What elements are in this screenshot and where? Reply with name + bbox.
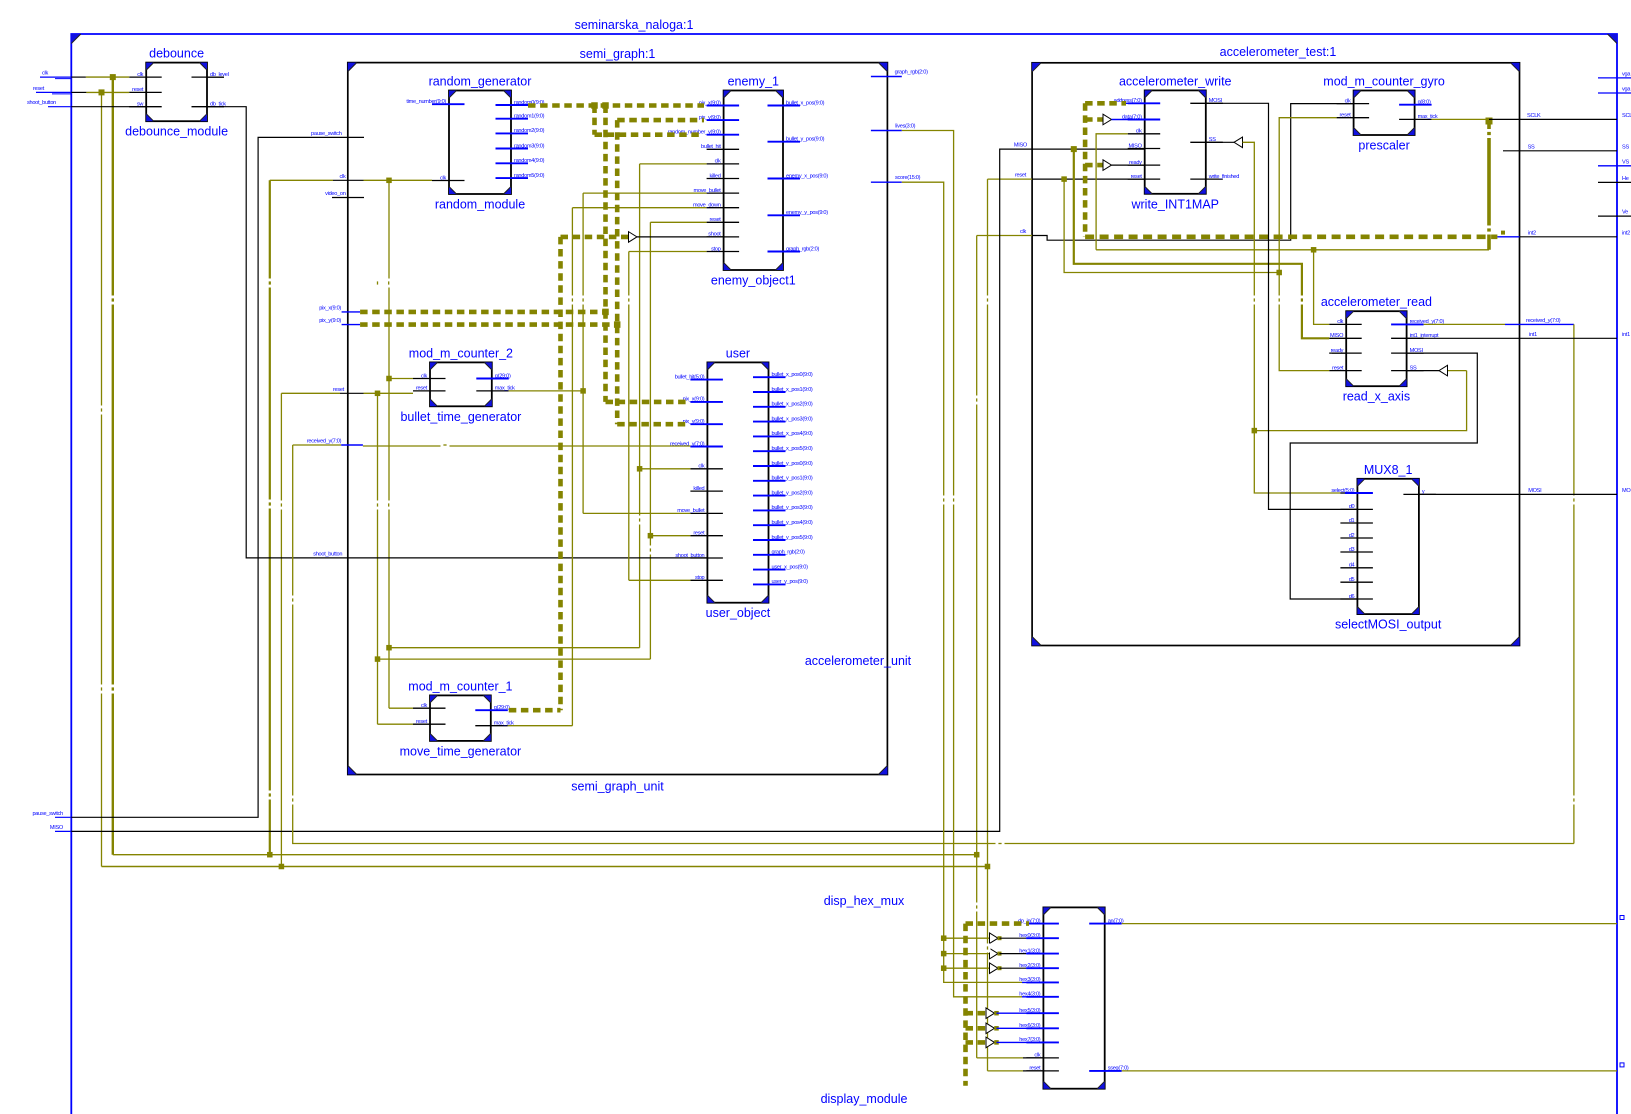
wire clk to mod_m_counter_1.clk bbox=[389, 707, 413, 709]
wire SPI clock horizontal y=249.8 bbox=[1096, 249, 1489, 251]
module mod_m_counter_1 (move_time_generator) bbox=[400, 679, 522, 758]
svg-text:received_y(7:0): received_y(7:0) bbox=[1526, 318, 1561, 324]
svg-text:reset: reset bbox=[132, 87, 144, 93]
bus dp_in dashed vertical x=965.5 bbox=[963, 924, 968, 1086]
wire move_bullet to enemy_1 bbox=[583, 192, 707, 194]
wire received_y right vertical bbox=[1573, 324, 1575, 843]
input port pause_switch bbox=[32, 811, 71, 818]
svg-text:killed: killed bbox=[693, 486, 704, 492]
svg-text:He: He bbox=[1622, 176, 1629, 182]
junction score hex0 bbox=[941, 935, 947, 941]
svg-text:bullet_x_pos0(9:0): bullet_x_pos0(9:0) bbox=[772, 372, 813, 378]
wire SCLK out bbox=[1489, 118, 1520, 120]
svg-text:clk: clk bbox=[137, 72, 143, 78]
svg-text:clk: clk bbox=[715, 159, 721, 165]
bus lives(3:0) output bbox=[871, 130, 902, 132]
wire reset to mod_m_counter_1.reset bbox=[378, 723, 414, 725]
svg-text:int2: int2 bbox=[1528, 230, 1536, 236]
wire MISO net to accelerometer_test bbox=[71, 149, 1032, 831]
module debounce (debounce_module) bbox=[125, 47, 228, 139]
junction score hex2 bbox=[941, 965, 947, 971]
module mod_m_counter_gyro (prescaler) bbox=[1323, 75, 1445, 153]
junction reset H5 bbox=[375, 656, 381, 662]
svg-text:bullet_y_pos4(9:0): bullet_y_pos4(9:0) bbox=[772, 520, 813, 526]
svg-text:clk: clk bbox=[42, 71, 48, 77]
svg-text:q(8:0): q(8:0) bbox=[1418, 100, 1431, 106]
svg-text:bullet_x_pos1(9:0): bullet_x_pos1(9:0) bbox=[772, 387, 813, 393]
svg-text:an(7:0): an(7:0) bbox=[1108, 918, 1124, 924]
svg-text:debounce: debounce bbox=[149, 47, 204, 61]
svg-text:SCLK: SCLK bbox=[1622, 113, 1631, 119]
wire clk vertical x=639.6 enemy/user bbox=[639, 164, 641, 648]
svg-text:clk: clk bbox=[698, 464, 704, 470]
wire shoot buffer to enemy_1.shoot bbox=[637, 236, 724, 238]
output stub VSYNC bbox=[1598, 165, 1631, 167]
junction clk user branch bbox=[637, 466, 643, 472]
wire reset to enemy_1.reset bbox=[650, 221, 706, 223]
svg-text:vga: vga bbox=[1622, 87, 1631, 93]
svg-text:reset: reset bbox=[416, 386, 428, 392]
input port shoot_button bbox=[27, 100, 71, 107]
wire write.SS to buffer bbox=[1206, 141, 1234, 143]
bus random_number_y to enemy_1 bbox=[595, 132, 704, 137]
svg-text:reset: reset bbox=[1340, 113, 1352, 119]
wire read.MOSI to MUX d6 bbox=[1290, 353, 1477, 599]
svg-text:pause_switch: pause_switch bbox=[32, 811, 63, 817]
wire score branch hex1 bbox=[944, 953, 990, 955]
svg-text:clk: clk bbox=[340, 174, 346, 180]
svg-text:d3: d3 bbox=[1349, 547, 1355, 553]
wire shoot_button to debounce.sw bbox=[71, 106, 146, 108]
svg-text:pix_x(9:0): pix_x(9:0) bbox=[683, 397, 705, 403]
svg-text:shoot_button: shoot_button bbox=[27, 100, 56, 106]
wire MUX y to MOSI edge bbox=[1419, 493, 1617, 495]
svg-text:clk: clk bbox=[1337, 319, 1343, 325]
svg-text:bullet_hit: bullet_hit bbox=[701, 144, 721, 150]
wire received_y from read_x_axis bbox=[1424, 323, 1505, 325]
svg-text:bullet_x_pos(9:0): bullet_x_pos(9:0) bbox=[786, 100, 825, 106]
wire SPI clock to read_x_axis.clk bbox=[1314, 250, 1330, 325]
bus branch hex5 bbox=[966, 1011, 987, 1016]
junction reset user branch bbox=[648, 533, 654, 539]
bus pix_x to user.pix_x bbox=[606, 400, 687, 405]
output stub Vcount bbox=[1598, 215, 1631, 217]
bus score(15:0) output bbox=[871, 181, 902, 183]
wire read SS stub bbox=[1407, 370, 1439, 372]
wire clk vertical x=389 to counters bbox=[388, 180, 390, 708]
wire an(7:0) to right edge bbox=[1122, 923, 1617, 925]
junction score hex1 bbox=[941, 951, 947, 957]
wire int2 stub to edge bbox=[1497, 236, 1519, 238]
svg-text:bullet_x_pos4(9:0): bullet_x_pos4(9:0) bbox=[772, 431, 813, 437]
svg-text:d5: d5 bbox=[1349, 577, 1355, 583]
wire stop to user.stop bbox=[629, 579, 691, 581]
buffer shoot (enemy_1) bbox=[629, 232, 638, 243]
junction move_bullet bbox=[580, 388, 586, 394]
svg-text:MISO: MISO bbox=[1014, 143, 1028, 149]
svg-text:user_y_pos(9:0): user_y_pos(9:0) bbox=[772, 579, 809, 585]
svg-text:bullet_y_pos(9:0): bullet_y_pos(9:0) bbox=[786, 137, 825, 143]
junction reset accel x=1279.2 bbox=[1276, 270, 1282, 276]
svg-text:clk: clk bbox=[421, 373, 427, 379]
junction reset H3 x=987.5 bbox=[985, 864, 991, 870]
module mod_m_counter_2 (bullet_time_generator) bbox=[400, 346, 521, 423]
svg-text:MISO: MISO bbox=[50, 825, 64, 831]
svg-text:display_module: display_module bbox=[821, 1092, 908, 1106]
wire clk riser to semi_graph x=269.8 bbox=[269, 180, 271, 854]
svg-text:VS: VS bbox=[1622, 159, 1629, 165]
junction clk to bullet_time_generator bbox=[386, 376, 392, 382]
svg-text:bullet_y_pos1(9:0): bullet_y_pos1(9:0) bbox=[772, 476, 813, 482]
bus pix_y to enemy_1.pix_y bbox=[617, 118, 704, 123]
junction clk H2 x=976.7 bbox=[974, 852, 980, 858]
svg-text:write_INT1MAP: write_INT1MAP bbox=[1130, 197, 1219, 211]
wire video_on stub bbox=[332, 197, 364, 199]
svg-text:MUX8_1: MUX8_1 bbox=[1364, 463, 1413, 477]
bus pix_x dashed horizontal bbox=[360, 310, 605, 315]
svg-text:clk: clk bbox=[421, 703, 427, 709]
svg-text:random5(9:0): random5(9:0) bbox=[514, 173, 545, 179]
svg-text:SS: SS bbox=[1528, 144, 1535, 150]
wire move_bullet net (max_tick bullet_time_generator) bbox=[509, 390, 583, 392]
bus branch hex7 bbox=[966, 1040, 987, 1045]
svg-text:lives(3:0): lives(3:0) bbox=[895, 124, 915, 130]
svg-text:seminarska_naloga:1: seminarska_naloga:1 bbox=[575, 18, 694, 32]
svg-text:accelerometer_unit: accelerometer_unit bbox=[805, 654, 912, 668]
svg-text:killed: killed bbox=[710, 173, 721, 179]
svg-text:user_object: user_object bbox=[706, 606, 771, 620]
hierarchy box accelerometer_test:1 (accelerometer_unit) bbox=[805, 45, 1520, 668]
svg-text:video_on: video_on bbox=[325, 191, 346, 197]
junction SCLK bbox=[1486, 118, 1493, 125]
output stub vga_hs bbox=[1598, 77, 1631, 79]
wire SS to read buffer bbox=[1254, 371, 1466, 431]
wire reset to user.reset bbox=[650, 535, 690, 537]
svg-text:d1: d1 bbox=[1349, 518, 1355, 524]
svg-text:SS: SS bbox=[1622, 144, 1629, 150]
svg-text:enemy_object1: enemy_object1 bbox=[711, 274, 796, 288]
wire clk drop to display_module bbox=[976, 855, 978, 1058]
bus pix_y vertical x=617.2 bbox=[615, 120, 620, 424]
output stub vga_vs bbox=[1598, 92, 1631, 94]
svg-text:int1: int1 bbox=[1529, 332, 1537, 338]
svg-text:user_x_pos(9:0): user_x_pos(9:0) bbox=[772, 564, 809, 570]
bus random0 to enemy pix_x row bbox=[528, 103, 704, 108]
wire move_down vertical x=572.4 bbox=[571, 208, 573, 726]
bus q(29:0) vertical x=560.5 bbox=[558, 237, 563, 710]
svg-text:graph_rgb(2:0): graph_rgb(2:0) bbox=[895, 70, 929, 76]
buffer hex5 bbox=[986, 1008, 995, 1019]
svg-text:vga: vga bbox=[1622, 71, 1631, 77]
bus pix_y dashed horizontal bbox=[360, 322, 617, 327]
wire sseg(7:0) to right edge bbox=[1122, 1070, 1617, 1072]
svg-text:reset: reset bbox=[1332, 365, 1344, 371]
svg-text:mod_m_counter_1: mod_m_counter_1 bbox=[408, 679, 512, 693]
svg-text:enemy_y_pos(9:0): enemy_y_pos(9:0) bbox=[786, 210, 828, 216]
svg-text:bullet_y_pos3(9:0): bullet_y_pos3(9:0) bbox=[772, 505, 813, 511]
wire score branch hex0 bbox=[944, 937, 990, 939]
bus junction blobs bbox=[602, 309, 609, 316]
wire reset link H5 bbox=[378, 658, 651, 660]
svg-text:reset: reset bbox=[33, 86, 45, 92]
svg-text:random1(9:0): random1(9:0) bbox=[514, 114, 545, 120]
svg-text:bullet_hit(5:0): bullet_hit(5:0) bbox=[675, 374, 705, 380]
svg-text:random4(9:0): random4(9:0) bbox=[514, 158, 545, 164]
buffer SS write (left-pointing) bbox=[1234, 137, 1243, 148]
wire lives to hex4 bbox=[902, 131, 1022, 997]
bus pix_x vertical x=605.5 bbox=[603, 106, 608, 402]
bus q(29:0) shoot: mod_m_counter_1 to buffer bbox=[509, 708, 561, 713]
svg-text:random3(9:0): random3(9:0) bbox=[514, 143, 545, 149]
module enemy_1 (enemy_object1) bbox=[668, 75, 829, 288]
svg-text:disp_hex_mux: disp_hex_mux bbox=[824, 894, 905, 908]
module user (user_object) bbox=[670, 346, 813, 620]
svg-text:debounce_module: debounce_module bbox=[125, 125, 228, 139]
bus branch hex6 bbox=[966, 1026, 987, 1031]
svg-text:reset: reset bbox=[693, 531, 705, 537]
svg-text:random_module: random_module bbox=[435, 198, 525, 212]
svg-text:accelerometer_write: accelerometer_write bbox=[1119, 74, 1232, 88]
svg-text:random2(9:0): random2(9:0) bbox=[514, 128, 545, 134]
svg-text:stop: stop bbox=[695, 575, 705, 581]
wire reset bottom horizontal H3 bbox=[102, 866, 988, 868]
svg-text:pix_y(9:0): pix_y(9:0) bbox=[683, 419, 705, 425]
bus int2 dashed horizontal y=236.8 bbox=[1085, 235, 1497, 240]
svg-text:bullet_time_generator: bullet_time_generator bbox=[400, 410, 521, 424]
wire SS net bbox=[1243, 142, 1346, 493]
wire clk trunk vertical x=112.8 bbox=[112, 77, 114, 855]
svg-text:MOSI: MOSI bbox=[1528, 488, 1542, 494]
svg-text:pix_y(9:0): pix_y(9:0) bbox=[319, 318, 341, 324]
junction reset accel x=1064.1 bbox=[1061, 176, 1067, 182]
svg-text:selectMOSI_output: selectMOSI_output bbox=[1335, 618, 1442, 632]
svg-text:time_number(9:0): time_number(9:0) bbox=[406, 99, 446, 105]
wire stop to enemy_1.stop bbox=[629, 251, 707, 253]
input port clk (top-left) bbox=[40, 71, 71, 79]
svg-text:bullet_x_pos3(9:0): bullet_x_pos3(9:0) bbox=[772, 416, 813, 422]
bus to write.address(7:0) bbox=[1085, 101, 1126, 106]
svg-text:reset: reset bbox=[416, 719, 428, 725]
bus pix_x(9:0) into semi_graph bbox=[342, 311, 361, 313]
svg-text:read_x_axis: read_x_axis bbox=[1343, 390, 1410, 404]
wire reset accel drop bbox=[1064, 179, 1279, 272]
svg-text:reset: reset bbox=[333, 387, 345, 393]
svg-text:random_generator: random_generator bbox=[429, 75, 532, 89]
wire reset riser to semi_graph x=281.4 bbox=[280, 393, 282, 866]
svg-text:q(29:0): q(29:0) bbox=[495, 373, 511, 379]
junction clk H4 x=389 bbox=[386, 645, 392, 651]
svg-text:semi_graph:1: semi_graph:1 bbox=[580, 47, 656, 61]
hierarchy box semi_graph:1 (semi_graph_unit) bbox=[348, 47, 888, 794]
wire reset drop to display_module bbox=[987, 867, 989, 1071]
wire reset vertical x=650.4 enemy/user bbox=[649, 222, 651, 659]
svg-text:MISO: MISO bbox=[1330, 333, 1344, 339]
module random_generator (random_module) bbox=[406, 75, 544, 212]
input port reset (top-left) bbox=[33, 86, 71, 94]
wire reset vertical x=377.5 bbox=[377, 393, 379, 724]
wire write.MOSI to MUX d0 bbox=[1206, 103, 1358, 509]
input port MISO bbox=[50, 825, 71, 832]
wire pause_switch net bbox=[71, 137, 364, 817]
module MUX8_1 (selectMOSI_output) bbox=[1331, 463, 1441, 632]
bus dp_in to disp_hex_mux.dp_in bbox=[966, 921, 1030, 926]
svg-text:mod_m_counter_2: mod_m_counter_2 bbox=[409, 346, 513, 360]
wire move_bullet vertical x=583.1 bbox=[582, 193, 584, 513]
svg-text:shoot_button: shoot_button bbox=[313, 551, 342, 557]
wire SPI clock vertical x=1489 bbox=[1487, 121, 1491, 250]
svg-text:bullet_x_pos2(9:0): bullet_x_pos2(9:0) bbox=[772, 402, 813, 408]
wire clk: edge to debounce.clk bbox=[71, 76, 86, 78]
svg-text:clk: clk bbox=[1020, 229, 1026, 235]
wire clk to enemy_1.clk bbox=[640, 163, 707, 165]
svg-text:SCLK: SCLK bbox=[1527, 113, 1541, 119]
svg-text:bullet_y_pos5(9:0): bullet_y_pos5(9:0) bbox=[772, 535, 813, 541]
wire score to hex3 bbox=[902, 182, 1022, 982]
wire MISO inside accel to write.MISO bbox=[1032, 148, 1145, 150]
wire SPI clock to write.clk bbox=[1096, 134, 1128, 250]
svg-text:bullet_y_pos2(9:0): bullet_y_pos2(9:0) bbox=[772, 490, 813, 496]
junction MISO x=1073.8 bbox=[1071, 146, 1077, 152]
bus branch write.ready bbox=[1085, 163, 1103, 168]
junction clk at debounce branch bbox=[110, 74, 116, 80]
wire reset to disp_hex_mux.reset bbox=[988, 1070, 1024, 1072]
wire MISO branch to read_x_axis.MISO bbox=[1074, 149, 1329, 338]
svg-text:prescaler: prescaler bbox=[1358, 139, 1409, 153]
bus graph_rgb(2:0) output stub bbox=[871, 76, 902, 78]
wire reset into semi_graph bbox=[281, 392, 340, 394]
bus branch write.data(7:0) bbox=[1085, 117, 1103, 122]
svg-text:mod_m_counter_gyro: mod_m_counter_gyro bbox=[1323, 75, 1445, 89]
module disp_hex_mux () bbox=[1018, 907, 1129, 1088]
buffer SS read (left-pointing) bbox=[1439, 365, 1448, 376]
wire move_bullet to user bbox=[583, 512, 690, 514]
buffer hex2 bbox=[990, 963, 999, 974]
buffer data bbox=[1103, 114, 1112, 125]
svg-text:pause_switch: pause_switch bbox=[311, 131, 342, 137]
wire clk into semi_graph bbox=[270, 179, 333, 181]
svg-text:reset: reset bbox=[1015, 173, 1027, 179]
junction reset x=377.5 bbox=[375, 391, 381, 397]
svg-text:received_y(7:0): received_y(7:0) bbox=[307, 439, 342, 445]
svg-text:accelerometer_read: accelerometer_read bbox=[1321, 295, 1432, 309]
buffer ready bbox=[1103, 160, 1112, 171]
wire reset trunk vertical x=101.5 bbox=[101, 92, 103, 866]
junction SPI clock x=1313.6 bbox=[1311, 247, 1317, 253]
wire clk to user.clk bbox=[640, 468, 691, 470]
wire reset into accelerometer_test bbox=[988, 178, 1033, 180]
svg-text:int2: int2 bbox=[1622, 230, 1630, 236]
junction clk H2 x=269.8 bbox=[267, 852, 273, 858]
svg-text:clk: clk bbox=[1136, 129, 1142, 135]
wire clk into accelerometer_test bbox=[977, 235, 1032, 237]
buffer hex1 bbox=[990, 948, 999, 959]
wire reset to prescaler.reset bbox=[1279, 118, 1336, 273]
svg-text:accelerometer_test:1: accelerometer_test:1 bbox=[1220, 45, 1337, 59]
bus random_number_y vertical x=594.5 bbox=[592, 106, 597, 135]
svg-text:enemy_x_pos(9:0): enemy_x_pos(9:0) bbox=[786, 173, 828, 179]
svg-text:user: user bbox=[726, 346, 750, 360]
svg-text:int1: int1 bbox=[1622, 332, 1630, 338]
module accelerometer_write (write_INT1MAP) bbox=[1114, 74, 1240, 211]
wire SPI clock: prescaler.max_tick to SCLK bbox=[1432, 118, 1489, 120]
junction reset H3 x=281.4 bbox=[279, 864, 285, 870]
svg-text:graph_rgb(2:0): graph_rgb(2:0) bbox=[786, 246, 820, 252]
wire break marks bbox=[99, 129, 1577, 953]
junction clk x=389 bbox=[386, 178, 392, 184]
wire clk to disp_hex_mux.clk bbox=[977, 1057, 1023, 1059]
svg-text:pix_x(9:0): pix_x(9:0) bbox=[319, 305, 341, 311]
wire clk jog inside accel box (black) bbox=[1032, 104, 1354, 241]
wire clk link H4 bbox=[389, 647, 640, 649]
svg-text:graph_rgb(2:0): graph_rgb(2:0) bbox=[772, 550, 806, 556]
wire received_y trunk bbox=[293, 445, 1574, 844]
svg-text:bullet_x_pos5(9:0): bullet_x_pos5(9:0) bbox=[772, 446, 813, 452]
svg-text:move_time_generator: move_time_generator bbox=[400, 744, 522, 758]
buffer hex7 bbox=[986, 1037, 995, 1048]
svg-text:clk: clk bbox=[440, 175, 446, 181]
wire reset to read_x_axis.reset bbox=[1279, 273, 1329, 371]
svg-text:reset: reset bbox=[710, 217, 722, 223]
buffer hex6 bbox=[986, 1023, 995, 1034]
svg-text:write_finished: write_finished bbox=[1208, 174, 1239, 180]
module accelerometer_read (read_x_axis) bbox=[1321, 295, 1445, 404]
svg-text:semi_graph_unit: semi_graph_unit bbox=[571, 780, 664, 794]
bus pix_y(9:0) into semi_graph bbox=[342, 324, 361, 326]
svg-text:enemy_1: enemy_1 bbox=[728, 75, 779, 89]
svg-text:bullet_y_pos0(9:0): bullet_y_pos0(9:0) bbox=[772, 461, 813, 467]
bus q(29:0) to shoot buffer bbox=[561, 235, 629, 240]
svg-text:d2: d2 bbox=[1349, 533, 1355, 539]
wire clk bottom horizontal H2 bbox=[113, 854, 977, 856]
buffer hex0 bbox=[990, 933, 999, 944]
wire received_y into semi_graph bbox=[293, 444, 342, 446]
svg-text:stop: stop bbox=[711, 246, 721, 252]
svg-text:Ve: Ve bbox=[1622, 210, 1628, 216]
wire move_down net (max_tick move_time_generator) bbox=[508, 725, 573, 727]
svg-text:score(15:0): score(15:0) bbox=[895, 175, 921, 181]
bus pix_y to user.pix_y bbox=[617, 422, 686, 427]
wire clk riser to accelerometer_test x=976.7 bbox=[976, 236, 978, 855]
wire int1_interrupt to edge bbox=[1407, 337, 1617, 339]
wire SS out stub bbox=[1503, 150, 1520, 152]
wire reset: edge to debounce.reset bbox=[71, 91, 86, 93]
wire clk to mod_m_counter_2.clk bbox=[389, 378, 413, 380]
wire score branch hex2 bbox=[944, 967, 990, 969]
wire db_tick net to user.shoot_button bbox=[207, 107, 707, 558]
svg-text:d4: d4 bbox=[1349, 563, 1355, 569]
wire stop net vertical x=628.8 bbox=[628, 252, 630, 581]
output stub Hcount bbox=[1598, 181, 1631, 183]
wire reset riser to accelerometer_test x=987.5 bbox=[987, 179, 989, 866]
bus int1map dashed vertical x=1085.1 bbox=[1083, 103, 1088, 237]
junction SS x=1254.3 bbox=[1252, 428, 1258, 434]
wire read.ready stub bbox=[1332, 352, 1346, 354]
junction reset at debounce branch bbox=[99, 89, 105, 95]
svg-text:q(29:0): q(29:0) bbox=[494, 705, 510, 711]
svg-text:MISO: MISO bbox=[1129, 143, 1143, 149]
svg-text:MOSI: MOSI bbox=[1622, 488, 1631, 494]
wire db_level stub bbox=[207, 76, 224, 78]
wire move_down to enemy_1 bbox=[572, 207, 706, 209]
